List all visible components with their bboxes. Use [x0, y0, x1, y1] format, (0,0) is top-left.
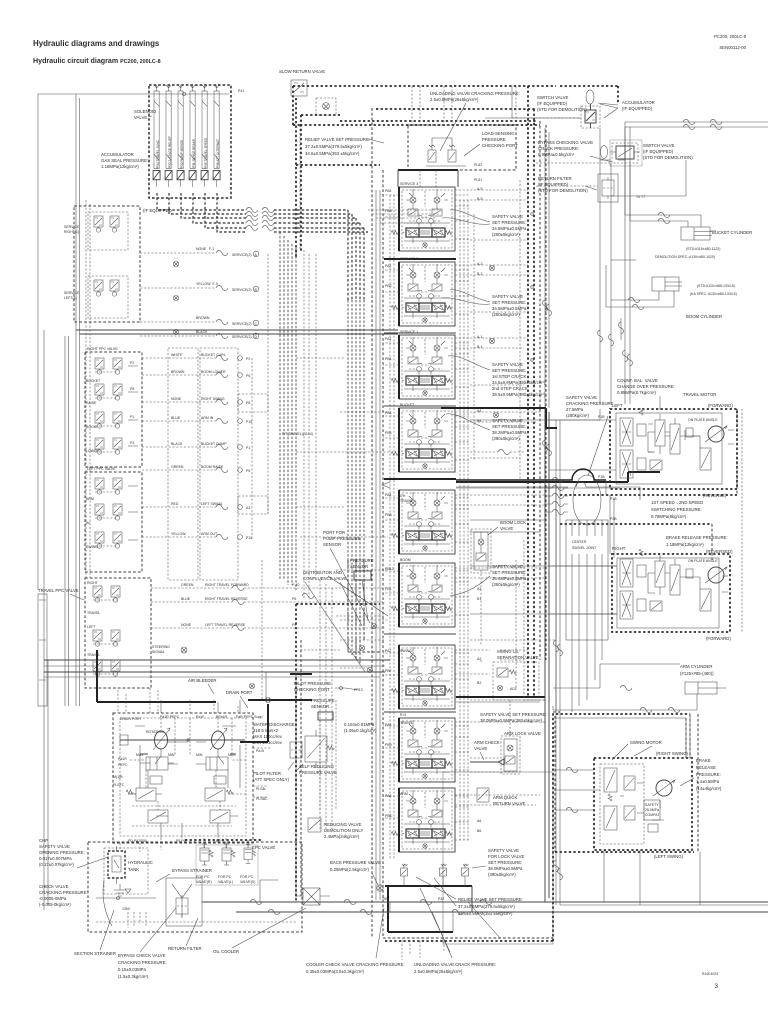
wire: right-edge drops to cylinders	[710, 230, 716, 232]
count bal valve label	[566, 378, 733, 418]
svg-text:37.2±0.5MPa(379.5±5kg/cm²): 37.2±0.5MPa(379.5±5kg/cm²)	[458, 904, 515, 909]
svg-text:OPENING PRESSURE:: OPENING PRESSURE:	[39, 850, 85, 855]
svg-text:PA4: PA4	[385, 411, 391, 415]
svg-text:SERVICE(2): SERVICE(2)	[232, 288, 252, 292]
svg-text:P2: P2	[130, 361, 134, 365]
svg-text:TRAVEL: TRAVEL	[400, 499, 413, 503]
svg-text:RAISE: RAISE	[86, 401, 97, 405]
wire: extra long horizontals to motors	[470, 409, 600, 420]
travel motor 1 internal boost	[648, 424, 700, 470]
svg-text:REDUCING VALVE: REDUCING VALVE	[324, 822, 361, 827]
svg-text:SET PRESSURE:: SET PRESSURE:	[492, 570, 526, 575]
svg-text:DEMOLITION SPEC.:#130×#80-1020: DEMOLITION SPEC.:#130×#80-1020)	[655, 255, 715, 259]
svg-text:T4 T7: T4 T7	[636, 195, 645, 199]
svg-text:34.6±0.5MPa(353 ±5kg/cm²): 34.6±0.5MPa(353 ±5kg/cm²)	[305, 151, 360, 156]
svg-text:PA5: PA5	[385, 189, 391, 193]
hose jogs left of swivel	[552, 477, 564, 482]
wire: black service row	[140, 335, 216, 337]
svg-text:YELLOW: YELLOW	[171, 532, 186, 536]
svg-text:P31 SWING BRAKE: P31 SWING BRAKE	[192, 139, 196, 168]
svg-text:BOOM LOCK: BOOM LOCK	[500, 520, 526, 525]
LS/PC valves	[136, 788, 156, 801]
svg-text:PA1: PA1	[385, 337, 391, 341]
extra horizontals lower corridor	[470, 640, 545, 700]
svg-text:BLUE: BLUE	[171, 416, 181, 420]
svg-text:BUCKET CURL: BUCKET CURL	[201, 353, 226, 357]
bottom annotation labels	[74, 946, 496, 979]
svg-text:ACCUMULATOR: ACCUMULATOR	[101, 152, 134, 157]
connection table dashed box	[168, 348, 198, 580]
return filter	[538, 176, 588, 193]
svg-text:27.5MPa: 27.5MPa	[566, 407, 584, 412]
arm cylinder area extra wires	[553, 664, 680, 688]
svg-text:B-2: B-2	[477, 272, 483, 276]
svg-text:1.18MPa(12kg/cm²): 1.18MPa(12kg/cm²)	[666, 542, 704, 547]
svg-text:0.85MPa(8.7kg/cm²): 0.85MPa(8.7kg/cm²)	[617, 390, 656, 395]
tank-to-pump dashed links	[120, 838, 161, 852]
wire: swing drain drops	[604, 850, 640, 905]
wire: thick crossover with hop	[456, 469, 606, 480]
svg-text:P1B: P1B	[598, 415, 605, 419]
svg-text:(STD FOR DEMOLITION): (STD FOR DEMOLITION)	[538, 188, 588, 193]
svg-text:P34 TRAVEL JUNC: P34 TRAVEL JUNC	[156, 139, 160, 168]
svg-text:3: 3	[714, 983, 718, 990]
back pressure valve	[330, 860, 381, 872]
svg-text:A6: A6	[477, 819, 481, 823]
svg-text:RIGHT TRAVEL FORWARD: RIGHT TRAVEL FORWARD	[205, 583, 249, 587]
thick separators	[384, 259, 456, 479]
leader diagonals top	[600, 104, 618, 118]
svg-text:SET PRESSURE:: SET PRESSURE:	[492, 368, 526, 373]
svg-text:BUCKET CYLINDER: BUCKET CYLINDER	[712, 230, 752, 235]
svg-text:B-5: B-5	[477, 197, 483, 201]
switch valve labels	[537, 95, 655, 112]
svg-text:P35 TRAVEL SPEED: P35 TRAVEL SPEED	[204, 137, 208, 168]
svg-text:RETURN FILTER: RETURN FILTER	[168, 946, 202, 951]
svg-text:SERVICE(2): SERVICE(2)	[232, 335, 252, 339]
svg-text:PL51: PL51	[474, 178, 482, 182]
arm section port dashes	[470, 758, 520, 772]
svg-text:BOOM: BOOM	[86, 425, 97, 429]
wire rows: service 2 A/B/C	[140, 253, 216, 322]
svg-text:(IF EQUIPPED): (IF EQUIPPED)	[537, 101, 568, 106]
target-corridor dashes between sections and swivel	[470, 240, 528, 458]
svg-text:PRESSURE: PRESSURE	[482, 137, 506, 142]
svg-text:(250±5kg/cm²): (250±5kg/cm²)	[492, 232, 520, 237]
svg-text:1st STEP CRACK: 1st STEP CRACK	[492, 374, 526, 379]
svg-text:GREEN: GREEN	[171, 465, 184, 469]
svg-text:BUCKET: BUCKET	[400, 403, 415, 407]
pump inner detail boost	[120, 718, 246, 836]
svg-text:(REVERSE): (REVERSE)	[703, 493, 727, 498]
svg-text:SERVICE: SERVICE	[64, 291, 80, 295]
leader diagonals	[305, 576, 388, 672]
svg-text:PILOT PRESSURE: PILOT PRESSURE	[294, 681, 331, 686]
svg-text:P36 ATT ALTERNAT: P36 ATT ALTERNAT	[216, 139, 220, 168]
svg-text:2nd STEP CRACK: 2nd STEP CRACK	[492, 386, 528, 391]
svg-text:B2: B2	[477, 681, 481, 685]
outer dashed enclosure of control valve	[372, 108, 553, 938]
svg-text:RIGHT TRAVEL REVERSE: RIGHT TRAVEL REVERSE	[205, 597, 248, 601]
svg-text:B-1: B-1	[477, 345, 483, 349]
svg-text:CHP: CHP	[39, 838, 48, 843]
wire: top bundle of solenoid outputs going right	[368, 210, 440, 223]
dashed frame segments right of center	[553, 711, 560, 713]
extra dashed rows upper right of valve to switch-valves	[512, 86, 581, 118]
svg-text:RELEASE: RELEASE	[696, 765, 716, 770]
svg-text:LEFT(1): LEFT(1)	[64, 296, 77, 300]
svg-text:RJ4D1023: RJ4D1023	[702, 972, 718, 976]
svg-text:IN: IN	[86, 521, 90, 525]
svg-text:SWIVEL JOINT: SWIVEL JOINT	[572, 546, 597, 550]
swing motor extra	[556, 770, 600, 810]
svg-text:LEFT SWING: LEFT SWING	[201, 502, 223, 506]
svg-text:CHANGE OVER PRESSURE:: CHANGE OVER PRESSURE:	[617, 384, 675, 389]
svg-text:BYPASS STRAINER: BYPASS STRAINER	[172, 868, 212, 873]
right PPC valve box	[85, 352, 142, 467]
hatch under tank	[128, 912, 146, 928]
svg-text:P41: P41	[238, 89, 244, 93]
svg-text:Hydraulic circuit diagram PC2: Hydraulic circuit diagram PC200, 200LC-8	[33, 57, 161, 65]
svg-text:FOR PC: FOR PC	[196, 875, 210, 879]
svg-text:1ST SPEED→2ND SPEED: 1ST SPEED→2ND SPEED	[651, 500, 703, 505]
more corridor dashes right of table	[262, 254, 316, 700]
tank level mark	[125, 889, 131, 893]
svg-text:(STD FOR DEMOLITION): (STD FOR DEMOLITION)	[643, 155, 693, 160]
wire: bottom-left risers	[118, 688, 238, 713]
svg-text:UNLOADING VALVE CRACK PRESSURE: UNLOADING VALVE CRACK PRESSURE:	[414, 962, 496, 967]
oil cooler	[303, 888, 320, 905]
wire: feed line to solenoid bank	[38, 93, 229, 95]
svg-text:(380±5kg/cm²): (380±5kg/cm²)	[492, 436, 520, 441]
svg-text:COMPAT: COMPAT	[645, 813, 660, 817]
servo pistons	[146, 757, 168, 770]
svg-text:DRAIN PORT: DRAIN PORT	[226, 690, 253, 695]
svg-text:2.5±0.5MPa(26±5kg/cm²): 2.5±0.5MPa(26±5kg/cm²)	[430, 97, 479, 102]
heavy dashed pilot drop left of valve	[295, 604, 297, 900]
svg-text:PD PA2R05: PD PA2R05	[128, 839, 147, 843]
svg-text:R.H: R.H	[400, 713, 407, 717]
svg-text:SAFETY VALVE: SAFETY VALVE	[492, 214, 523, 219]
svg-text:2.4MPa(24kg/cm²): 2.4MPa(24kg/cm²)	[324, 834, 360, 839]
heavy dashed lines lower right	[556, 713, 690, 715]
svg-text:BOOM LOWER: BOOM LOWER	[201, 370, 226, 374]
heavy dashed vertical pair right of valve	[528, 86, 534, 697]
svg-text:LOAD-SENSING: LOAD-SENSING	[482, 131, 515, 136]
wire: more horizontal gray lines x600-768 top right	[611, 160, 686, 260]
wire: bottom right return continuation	[699, 852, 701, 905]
svg-text:TRAVEL: TRAVEL	[87, 653, 100, 657]
section labels	[400, 182, 418, 796]
A2 thick crossover bus	[456, 472, 660, 482]
svg-text:RELIEF VALVE SET PRESSURE:: RELIEF VALVE SET PRESSURE:	[458, 897, 523, 902]
leader to tank valve	[77, 857, 108, 868]
svg-text:NONE: NONE	[171, 397, 182, 401]
svg-text:SERVICE 1: SERVICE 1	[400, 330, 418, 334]
tank curve	[103, 880, 112, 926]
svg-text:FOR PC: FOR PC	[240, 875, 254, 879]
travel motor 2	[612, 554, 730, 632]
svg-text:(STD:#120×#85-1334.5): (STD:#120×#85-1334.5)	[697, 284, 735, 288]
svg-text:38.2MPa±0.5MPa: 38.2MPa±0.5MPa	[492, 430, 527, 435]
tank internals	[96, 921, 296, 923]
svg-text:0.35±0.03MPa(3.0±0.3kg/cm²): 0.35±0.03MPa(3.0±0.3kg/cm²)	[306, 969, 365, 974]
svg-text:RIGHT PPC VALVE: RIGHT PPC VALVE	[87, 347, 118, 351]
additional tiny check valves in corridor	[489, 265, 494, 270]
svg-text:34.5MPa±0.5MPa: 34.5MPa±0.5MPa	[492, 226, 527, 231]
svg-text:PB4: PB4	[385, 431, 392, 435]
svg-text:SET PRESSURE:: SET PRESSURE:	[492, 424, 526, 429]
svg-text:RIGHT SWING: RIGHT SWING	[201, 397, 225, 401]
travel motor 1	[610, 409, 737, 489]
svg-text:A3: A3	[246, 506, 250, 510]
svg-text:TRAVEL: TRAVEL	[400, 721, 413, 725]
wire: work port dashed lines right of sections	[455, 190, 545, 805]
wires: solenoid outputs with S jogs going right	[157, 193, 246, 232]
unloading valve cluster	[408, 125, 516, 170]
svg-text:PP13: PP13	[354, 688, 363, 692]
service left group	[88, 276, 128, 318]
svg-text:ARM LOCK VALVE: ARM LOCK VALVE	[504, 731, 541, 736]
svg-text:P5 P6: P5 P6	[176, 839, 186, 843]
svg-text:SAFETY VALVE: SAFETY VALVE	[488, 848, 519, 853]
svg-text:SAFETY VALVE: SAFETY VALVE	[492, 418, 523, 423]
heavy dash from unload to slow return	[293, 124, 300, 126]
svg-text:VALVE(R): VALVE(R)	[196, 880, 212, 884]
svg-text:B1: B1	[477, 597, 481, 601]
svg-text:SET PRESSURE:: SET PRESSURE:	[492, 220, 526, 225]
swivel joint	[573, 475, 601, 525]
svg-text:0.25MPa(2.5kg/cm²): 0.25MPa(2.5kg/cm²)	[330, 867, 369, 872]
pump circles	[155, 731, 168, 749]
svg-text:Pa1R: Pa1R	[118, 757, 127, 761]
svg-text:(280kg/cm²): (280kg/cm²)	[566, 413, 589, 418]
svg-text:PA9: PA9	[385, 723, 391, 727]
svg-text:CRACKING PRESSURE:: CRACKING PRESSURE:	[39, 890, 88, 895]
wire: heavy pump discharge	[240, 700, 312, 742]
pump risers to long bus	[265, 672, 267, 700]
svg-text:SWING: SWING	[400, 649, 412, 653]
svg-text:COUNT. BAL. VALVE: COUNT. BAL. VALVE	[617, 378, 658, 383]
wire: thick A4/B4 bucket route	[441, 408, 557, 428]
wire: main boom line right	[625, 122, 768, 127]
svg-text:UNLOADING VALVE CRACKING PRESS: UNLOADING VALVE CRACKING PRESSURE:	[430, 91, 520, 96]
svg-text:CONFLUENCE VALVE: CONFLUENCE VALVE	[303, 576, 347, 581]
boom cylinder	[652, 277, 682, 291]
svg-text:SERVICE: SERVICE	[64, 225, 80, 229]
swivel joint pass-through lines below	[572, 640, 602, 712]
arm cylinder	[680, 664, 714, 676]
svg-text:OIL COOLER: OIL COOLER	[213, 949, 239, 954]
svg-text:P3: P3	[130, 441, 134, 445]
svg-text:SLOW RETURN VALVE: SLOW RETURN VALVE	[279, 69, 325, 74]
wire: pilot dashed verticals left margin	[86, 200, 90, 578]
svg-text:(1.5±0.3kg/cm²): (1.5±0.3kg/cm²)	[118, 974, 149, 979]
misc connecting verticals bottom	[390, 886, 472, 912]
heavy left-dash P bus	[290, 673, 312, 675]
svg-text:P11: P11	[246, 536, 252, 540]
svg-text:P1B: P1B	[598, 475, 605, 479]
svg-text:ARM OUT: ARM OUT	[201, 532, 218, 536]
svg-text:HYDRAULIC: HYDRAULIC	[128, 860, 153, 865]
svg-text:BROWN: BROWN	[196, 316, 210, 320]
svg-text:(IF EQUIPPED: (IF EQUIPPED	[143, 208, 172, 213]
svg-text:PB9: PB9	[385, 743, 392, 747]
svg-text:YELLOW F-0: YELLOW F-0	[196, 282, 218, 286]
svg-text:28.0MPa: 28.0MPa	[645, 808, 659, 812]
svg-text:SWITCH VALVE: SWITCH VALVE	[537, 95, 568, 100]
svg-text:RIGHT(1): RIGHT(1)	[64, 230, 79, 234]
relief valve set pressure label	[305, 137, 370, 156]
bypass checking valve	[538, 140, 593, 157]
svg-text:CHECK VALVE: CHECK VALVE	[39, 884, 69, 889]
svg-text:BUCKET DUMP: BUCKET DUMP	[201, 442, 227, 446]
svg-text:SAFETY VALVE: SAFETY VALVE	[492, 564, 523, 569]
wire: travel motor supply links	[549, 420, 560, 614]
svg-text:AIR BLEEDER: AIR BLEEDER	[188, 678, 216, 683]
svg-text:P1: P1	[130, 415, 134, 419]
bottom relief valves	[401, 864, 408, 879]
svg-text:SWITCHING PRESSURE:: SWITCHING PRESSURE:	[651, 507, 702, 512]
svg-text:BLUE: BLUE	[181, 597, 191, 601]
svg-text:ARM: ARM	[400, 792, 408, 796]
service right group	[88, 212, 128, 250]
leader diagonal from 'swing motor'	[612, 744, 628, 760]
svg-text:P/T(SWIVEL)(1104): P/T(SWIVEL)(1104)	[282, 432, 313, 436]
left tall component	[38, 594, 47, 706]
svg-text:(IF EQUIPPED): (IF EQUIPPED)	[643, 149, 674, 154]
svg-text:BP: BP	[216, 839, 221, 843]
svg-text:BYPASS CHECKING VALVE: BYPASS CHECKING VALVE	[538, 140, 593, 145]
speed switching label	[651, 500, 703, 519]
more midfield dashed verticals	[412, 86, 452, 125]
svg-text:B4: B4	[477, 419, 481, 423]
heavy dashed pilot buses top	[293, 86, 618, 125]
pump shaft	[120, 739, 245, 741]
svg-text:PLSB-: PLSB-	[256, 787, 267, 791]
wire: pump internal risers	[161, 718, 232, 756]
wire: left vertical bus	[76, 94, 80, 706]
svg-text:P8: P8	[246, 401, 250, 405]
svg-text:SELF REDUCING: SELF REDUCING	[299, 764, 335, 769]
svg-text:0.103±0.01MPa: 0.103±0.01MPa	[344, 722, 375, 727]
svg-text:(-0.005-0kg/cm²): (-0.005-0kg/cm²)	[39, 902, 71, 907]
svg-text:P6: P6	[292, 597, 296, 601]
svg-text:34.5±0.9MPa(350±5kg/cm²): 34.5±0.9MPa(350±5kg/cm²)	[492, 380, 546, 385]
svg-text:P2: P2	[246, 357, 250, 361]
heavier solenoid bundle lower section	[348, 560, 364, 660]
svg-text:LEFT TRAVEL REVERSE: LEFT TRAVEL REVERSE	[205, 623, 246, 627]
svg-text:SECTION STRAINER: SECTION STRAINER	[74, 951, 116, 956]
svg-text:RELIEF VALVE SET PRESSURE:: RELIEF VALVE SET PRESSURE:	[305, 137, 370, 142]
svg-text:A1: A1	[477, 587, 481, 591]
thick top plate of valve	[398, 169, 458, 171]
valve sections stack	[383, 187, 469, 251]
svg-text:BROWN: BROWN	[171, 370, 185, 374]
return line across bottom	[202, 901, 768, 903]
svg-text:EPC VALVE: EPC VALVE	[252, 845, 275, 850]
wire: verticals between pump and EPC	[161, 823, 218, 838]
svg-text:1.18MPa(12kg/cm²): 1.18MPa(12kg/cm²)	[101, 164, 139, 169]
port labels left edge of valve	[385, 189, 394, 818]
svg-text:TANK: TANK	[128, 867, 139, 872]
wire: oil cooler connections	[296, 895, 330, 897]
svg-text:CENTER: CENTER	[572, 540, 587, 544]
svg-text:LEFT: LEFT	[612, 403, 623, 408]
svg-text:ARM CHECK: ARM CHECK	[474, 740, 500, 745]
svg-text:PILOT FILTER: PILOT FILTER	[253, 771, 281, 776]
svg-text:VALVE(S): VALVE(S)	[240, 880, 255, 884]
tank inlet valve (heavy dashed)	[108, 851, 125, 878]
svg-text:SAFETY VALVE: SAFETY VALVE	[492, 294, 523, 299]
small check circles row above pump	[265, 697, 270, 702]
thick supply line	[97, 701, 216, 703]
svg-text:Pa-B: Pa-B	[256, 749, 264, 753]
svg-text:SAFETY: SAFETY	[645, 803, 659, 807]
svg-text:(IF EQUIPPED): (IF EQUIPPED)	[622, 106, 653, 111]
svg-text:P5: P5	[246, 469, 250, 473]
svg-text:PB7: PB7	[385, 669, 392, 673]
svg-text:PLSBC: PLSBC	[256, 797, 268, 801]
svg-text:SWING: SWING	[86, 545, 98, 549]
svg-text:2.5±0.5MPa(25±5kg/cm²): 2.5±0.5MPa(25±5kg/cm²)	[414, 969, 463, 974]
drop from swing-LS to arm lock	[509, 700, 511, 736]
pilot filter	[290, 739, 302, 761]
svg-text:P33 2-STAGE RELIEF: P33 2-STAGE RELIEF	[168, 136, 172, 168]
extra verticals right of table	[252, 254, 268, 540]
svg-text:LEFT: LEFT	[87, 625, 96, 629]
extra center dashes near sensor	[340, 620, 388, 668]
svg-text:SERVICE 3: SERVICE 3	[400, 182, 418, 186]
check circles mid	[371, 623, 376, 628]
svg-text:PB1: PB1	[385, 587, 392, 591]
wire: pump outlet risers to long lines	[161, 700, 240, 713]
relief block frame	[471, 886, 473, 912]
IF EQUIPPED service box	[74, 206, 140, 322]
svg-text:BLACK: BLACK	[171, 442, 183, 446]
svg-text:PRESSURE:: PRESSURE:	[696, 772, 721, 777]
svg-text:(FORWARD): (FORWARD)	[708, 403, 733, 408]
svg-text:(14±4kg/cm²): (14±4kg/cm²)	[696, 786, 722, 791]
corridor dashes density	[474, 180, 520, 480]
svg-text:PB2: PB2	[385, 284, 392, 288]
svg-text:RIGHT: RIGHT	[87, 581, 99, 585]
svg-text:VALVE(L): VALVE(L)	[218, 880, 233, 884]
svg-text:0.017±0.007MPa: 0.017±0.007MPa	[39, 856, 72, 861]
svg-text:M(1)B: M(1)B	[113, 775, 123, 779]
wires from valve top to right	[511, 86, 513, 118]
svg-text:DEMOLITION ONLY: DEMOLITION ONLY	[324, 828, 363, 833]
svg-text:VALVE: VALVE	[500, 526, 513, 531]
CHP safety valve label	[39, 838, 85, 867]
svg-text:(250±5kg/cm²): (250±5kg/cm²)	[492, 312, 520, 317]
dashed verticals inner center	[390, 195, 394, 860]
svg-text:PA7: PA7	[385, 649, 391, 653]
svg-text:TRAVEL MOTOR: TRAVEL MOTOR	[683, 392, 716, 397]
labels around pump bottom	[128, 839, 221, 843]
svg-text:Hydraulic diagrams and drawing: Hydraulic diagrams and drawings	[33, 39, 160, 48]
left PPC valve box	[85, 472, 142, 572]
pump extra details	[135, 726, 236, 764]
svg-text:1350: 1350	[122, 907, 130, 911]
svg-text:34.5MPa±0.5MPa: 34.5MPa±0.5MPa	[492, 306, 527, 311]
travel PPC valve box	[85, 578, 151, 688]
svg-text:SAFETY VALVE: SAFETY VALVE	[492, 362, 523, 367]
solenoid valve units	[153, 85, 160, 187]
svg-text:SERVICE 2: SERVICE 2	[400, 257, 418, 261]
safety valve annotations	[442, 210, 547, 723]
svg-text:A-2: A-2	[477, 262, 483, 266]
